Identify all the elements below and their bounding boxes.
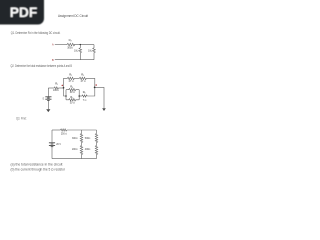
parallel box left vertical [65,90,67,100]
resistor R3 (vertical, right) [93,45,96,60]
svg-text:(b) the current through the 5: (b) the current through the 5 Ω resistor [11,167,66,171]
svg-text:Assignment DC Circuit: Assignment DC Circuit [58,14,88,18]
svg-text:R₃: R₃ [81,73,84,77]
svg-text:300Ω: 300Ω [72,137,78,140]
wire top branch right down [86,78,94,87]
wire battery top [47,88,49,97]
svg-text:A: A [52,42,54,46]
svg-text:Q1. Determine Rx in the follow: Q1. Determine Rx in the following DC cir… [11,31,61,35]
svg-text:PDF: PDF [10,5,38,20]
svg-text:30 Ω: 30 Ω [70,91,75,94]
node right junction [94,87,96,89]
left rail top [51,130,53,142]
svg-text:500Ω: 500Ω [85,137,91,140]
resistor 250 ohm (series top) [61,129,68,131]
wire top left [52,129,61,131]
PDF badge [0,0,44,25]
node left red dot [62,85,64,87]
svg-text:RX: RX [69,38,73,42]
svg-text:200Ω: 200Ω [72,148,78,151]
node box right junction [78,95,80,97]
resistor R3 (top branch right) [79,77,86,79]
svg-text:R₁: R₁ [55,81,58,85]
ground arrow left [46,109,50,112]
right column with two resistors [95,130,97,159]
resistor R2 (top branch left) [67,77,74,79]
battery 20V plates [49,143,55,147]
wire top [55,44,67,46]
node left junction [63,87,65,89]
wire bottom [55,59,94,61]
resistor R4 (box top) [66,89,79,91]
ground arrow right [102,108,106,111]
node right red dot [95,84,97,86]
parallel box right vertical [78,90,80,100]
svg-text:100Ω: 100Ω [53,89,59,92]
wire battery bottom [47,101,49,110]
svg-text:Q3. Find:: Q3. Find: [16,116,27,120]
resistor Rx zigzag (series, top wire) [67,43,75,46]
svg-text:10Ω: 10Ω [88,50,93,53]
wire bottom [52,158,97,160]
svg-text:R₂: R₂ [69,73,72,77]
wire top right [74,44,94,46]
wire left horizontal to R1 [48,87,54,89]
svg-text:400Ω: 400Ω [85,148,91,151]
resistor R1 (series horizontal) [54,87,58,89]
svg-text:250 Ω: 250 Ω [61,133,67,136]
wire up branch left [64,78,68,88]
resistor R2 (vertical, middle) [79,45,82,60]
svg-text:27 Ω: 27 Ω [81,80,86,83]
svg-text:R₅: R₅ [70,95,73,99]
svg-text:27 Ω: 27 Ω [69,80,74,83]
svg-text:Q2. Determine the total resist: Q2. Determine the total resistance betwe… [11,64,73,68]
node J1 [80,44,81,45]
wire right junction to drop [95,87,104,108]
resistor R6 (series right) [82,95,87,97]
svg-text:20 V: 20 V [56,144,61,146]
wire to node [58,87,63,89]
node box left junction [65,95,67,97]
left rail bottom [51,147,53,158]
wire top right [67,129,97,131]
wire node down to middle line [64,88,67,96]
svg-text:E: E [43,98,45,101]
wire box to R6 [79,95,82,97]
svg-text:B: B [52,58,54,62]
svg-text:R₄: R₄ [70,85,73,89]
svg-text:30 Ω: 30 Ω [70,101,75,104]
svg-text:R₆: R₆ [83,90,86,94]
svg-text:7 Ω: 7 Ω [83,99,87,102]
wire R6 to right vertical [87,87,95,96]
svg-text:(a) the total resistance in th: (a) the total resistance in the circuit [11,162,63,166]
resistor R5 (box bottom) [66,99,79,101]
svg-text:10Ω: 10Ω [74,50,79,53]
battery E plates [45,97,51,101]
wire between R2 R3 [74,77,79,79]
middle column with two resistors [80,130,82,159]
svg-text:300Ω: 300Ω [67,46,73,49]
